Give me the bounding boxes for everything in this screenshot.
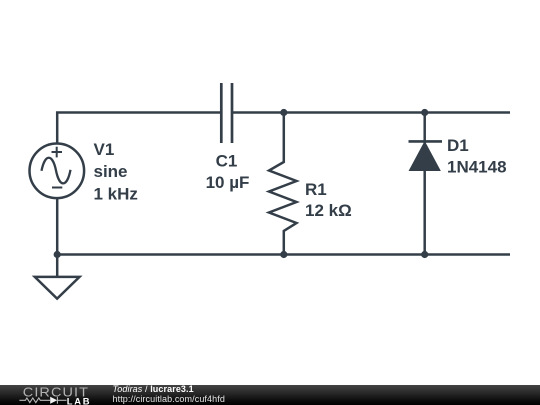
wire (284, 111, 425, 114)
diode D1 (409, 113, 443, 255)
ground node junction (54, 251, 61, 258)
node B junction (421, 109, 428, 116)
svg-text:sine: sine (94, 162, 128, 181)
CircuitLab logo (0, 385, 100, 405)
value label 1N4148 (447, 158, 507, 177)
svg-text:D1: D1 (447, 136, 469, 155)
footer url (113, 395, 225, 404)
svg-text:1 kHz: 1 kHz (94, 185, 138, 204)
voltage source V1 (30, 144, 85, 199)
value label 10 uF (206, 173, 250, 192)
ground (35, 255, 80, 299)
wire (425, 253, 510, 256)
svg-text:C1: C1 (216, 151, 238, 170)
wire (57, 113, 221, 143)
wire (232, 111, 284, 114)
wire (284, 253, 425, 256)
svg-text:10 µF: 10 µF (206, 173, 250, 192)
svg-text:LAB: LAB (67, 395, 91, 405)
label R1 (305, 180, 327, 199)
label C1 (216, 151, 238, 170)
svg-text:12 kΩ: 12 kΩ (305, 201, 352, 220)
node C junction (280, 251, 287, 258)
svg-text:1N4148: 1N4148 (447, 158, 507, 177)
footer title (113, 385, 194, 394)
wire (425, 111, 510, 114)
label D1 (447, 136, 469, 155)
node D junction (421, 251, 428, 258)
capacitor C1 (221, 83, 232, 143)
node A junction (280, 109, 287, 116)
wire (57, 253, 284, 256)
resistor R1 (269, 113, 297, 255)
value label 12 kOhm (305, 201, 352, 220)
value label sine 1 kHz (94, 162, 138, 204)
label V1 (94, 140, 115, 159)
svg-text:V1: V1 (94, 140, 115, 159)
wire (56, 199, 59, 255)
svg-text:R1: R1 (305, 180, 327, 199)
